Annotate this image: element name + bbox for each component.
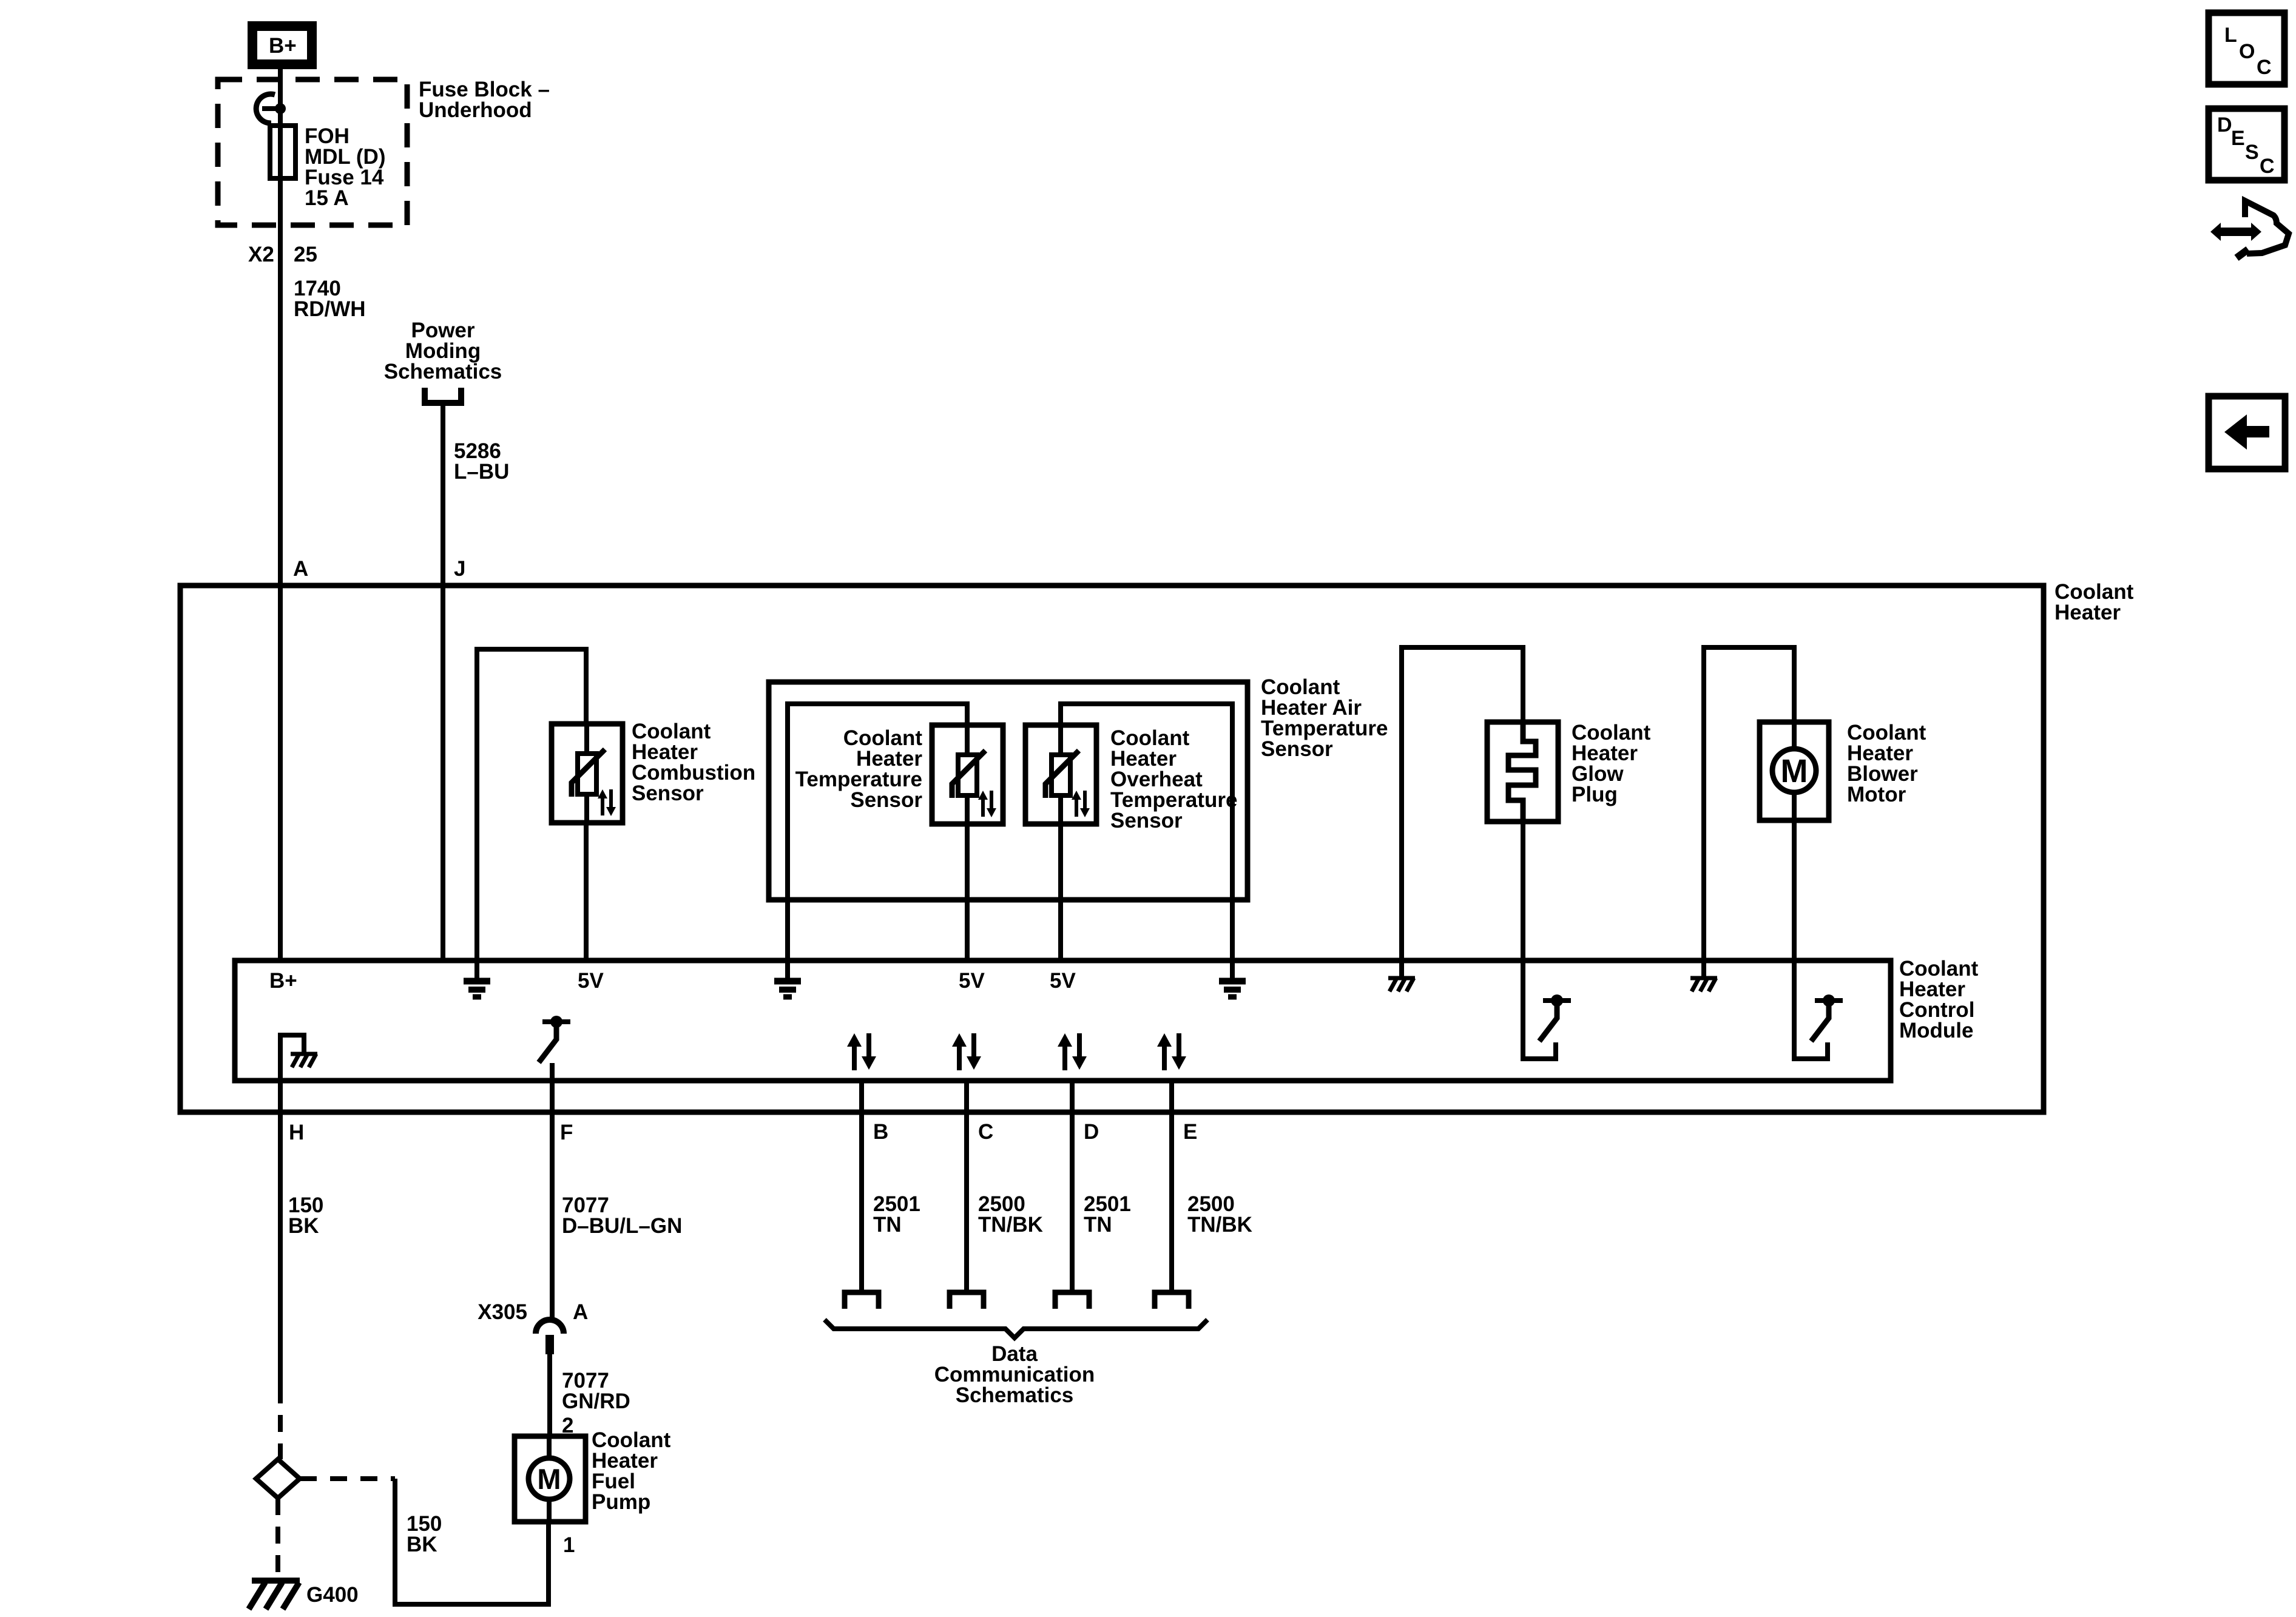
ground pin for temperature sensor [774, 960, 801, 997]
fuse block underhood dashed box [218, 79, 407, 225]
svg-text:D: D [2217, 113, 2232, 137]
glow plug driver switch in module [1539, 994, 1571, 1041]
svg-text:O: O [2239, 40, 2255, 63]
page-jump hand icon with double arrow [2210, 201, 2289, 258]
svg-text:BK: BK [407, 1533, 437, 1556]
serial data wire C (2500 TN/BK) [964, 1081, 969, 1291]
chassis ground pin (blower loop) [1701, 960, 1706, 978]
svg-text:Schematics: Schematics [956, 1383, 1074, 1407]
coolant heater temperature sensor [795, 725, 1003, 824]
svg-text:B+: B+ [269, 969, 297, 993]
svg-text:TN: TN [873, 1213, 902, 1237]
svg-text:B: B [873, 1120, 888, 1144]
svg-text:GN/RD: GN/RD [562, 1389, 630, 1413]
svg-text:Underhood: Underhood [419, 98, 532, 122]
svg-text:L–BU: L–BU [454, 460, 509, 484]
coolant heater combustion sensor [552, 720, 755, 823]
serial data wire B (2501 TN) [859, 1081, 864, 1291]
Power Moding Schematics off-page reference [384, 319, 502, 403]
glow plug loop wire to module [1402, 647, 1523, 960]
ground pin for combustion sensor [464, 960, 490, 997]
svg-text:M: M [537, 1463, 561, 1495]
svg-text:X2: X2 [248, 243, 274, 266]
wire J (circuit 5286 L-BU) [441, 403, 445, 960]
coolant heater combustion sensor: loop wire to ground pin [477, 649, 586, 960]
svg-text:BK: BK [288, 1214, 319, 1238]
junction node in fuse block [275, 103, 286, 114]
svg-text:Sensor: Sensor [1110, 809, 1183, 832]
blower motor driver switch in module [1811, 994, 1843, 1041]
svg-text:S: S [2245, 141, 2259, 164]
svg-text:L: L [2224, 24, 2237, 47]
LOC navigation icon [2209, 13, 2284, 84]
svg-text:Sensor: Sensor [850, 788, 922, 812]
serial data wire D (2501 TN) [1070, 1081, 1075, 1291]
battery feed B+ symbol [248, 21, 317, 69]
DESC navigation icon [2209, 109, 2284, 180]
overheat sensor loop wire to ground pin [1061, 704, 1232, 960]
svg-text:Motor: Motor [1847, 783, 1906, 806]
svg-text:TN/BK: TN/BK [978, 1213, 1043, 1237]
blower motor loop wire to module [1704, 647, 1794, 960]
wire B+ to fuse block and down to coolant heater (circuit 1740) [278, 69, 283, 960]
svg-text:1: 1 [563, 1533, 575, 1557]
module internal switch at pin F [539, 1016, 570, 1062]
svg-text:25: 25 [294, 243, 317, 266]
svg-text:F: F [560, 1121, 573, 1144]
coolant heater air temperature sensor assembly box [769, 682, 1248, 900]
svg-text:5V: 5V [578, 969, 604, 993]
wire F (circuit 7077 D-BU/L-GN) [550, 1081, 555, 1320]
serial data wire E (2500 TN/BK) [1169, 1081, 1174, 1291]
svg-text:C: C [2260, 155, 2275, 178]
svg-text:B+: B+ [269, 34, 297, 58]
connector terminal at fuse block feed [256, 94, 275, 123]
svg-text:Schematics: Schematics [384, 360, 502, 383]
ground G400 [249, 1581, 359, 1609]
svg-text:Sensor: Sensor [632, 781, 704, 805]
svg-text:G400: G400 [306, 1583, 359, 1607]
blower motor wire into module switch [1794, 820, 1828, 1059]
temperature sensor loop wire to ground pin [788, 704, 967, 960]
svg-text:E: E [2231, 127, 2245, 150]
coolant heater blower motor [1760, 721, 1926, 820]
ground pin for overheat sensor [1219, 960, 1246, 997]
overheat sensor wire to 5V pin [1058, 824, 1063, 960]
fuse FOH MDL (D) Fuse 14 15 A [270, 126, 295, 178]
splice diamond [256, 1459, 300, 1498]
temperature sensor wire to 5V pin [965, 824, 970, 960]
svg-text:TN/BK: TN/BK [1187, 1213, 1252, 1237]
module internal ground at pin H [280, 1035, 304, 1081]
svg-text:A: A [293, 557, 308, 581]
svg-text:Plug: Plug [1572, 783, 1618, 806]
coolant heater fuel pump [515, 1428, 671, 1522]
wire H (circuit 150 BK) [278, 1081, 283, 1386]
svg-text:C: C [2257, 56, 2272, 79]
glow plug wire into module switch [1523, 822, 1556, 1059]
data communication schematics brace [825, 1320, 1207, 1338]
svg-text:Heater: Heater [2055, 601, 2121, 624]
wire 7077 GN/RD to fuel pump pin 2 [547, 1354, 552, 1436]
dashed wire from splice to fuel pump return [300, 1476, 395, 1481]
svg-text:H: H [289, 1121, 304, 1144]
svg-text:D–BU/L–GN: D–BU/L–GN [562, 1214, 682, 1238]
svg-text:D: D [1084, 1120, 1099, 1144]
svg-text:5V: 5V [1050, 969, 1076, 993]
svg-text:E: E [1183, 1120, 1197, 1144]
svg-text:J: J [454, 557, 465, 581]
coolant heater overheat temperature sensor [1025, 725, 1237, 832]
svg-text:TN: TN [1084, 1213, 1112, 1237]
svg-text:X305: X305 [478, 1300, 527, 1324]
svg-text:A: A [573, 1300, 588, 1324]
combustion sensor wire to 5V pin [584, 823, 589, 960]
inline connector X305 pin A [478, 1300, 588, 1354]
coolant heater glow plug [1487, 721, 1651, 822]
svg-text:15 A: 15 A [305, 186, 349, 210]
coolant heater assembly box [180, 586, 2044, 1112]
svg-text:Pump: Pump [592, 1490, 650, 1514]
svg-text:C: C [978, 1120, 993, 1144]
coolant heater control module box [235, 960, 1891, 1081]
svg-text:M: M [1781, 753, 1808, 789]
chassis ground pin (glow plug loop) [1399, 960, 1404, 978]
svg-text:Module: Module [1899, 1019, 1973, 1042]
serial data arrows in module (pins B C D E) [847, 1033, 876, 1070]
svg-text:RD/WH: RD/WH [294, 297, 366, 321]
svg-text:Sensor: Sensor [1261, 737, 1333, 761]
svg-text:5V: 5V [959, 969, 985, 993]
back navigation icon [2209, 396, 2285, 469]
dashed wire from splice to G400 [275, 1498, 280, 1578]
